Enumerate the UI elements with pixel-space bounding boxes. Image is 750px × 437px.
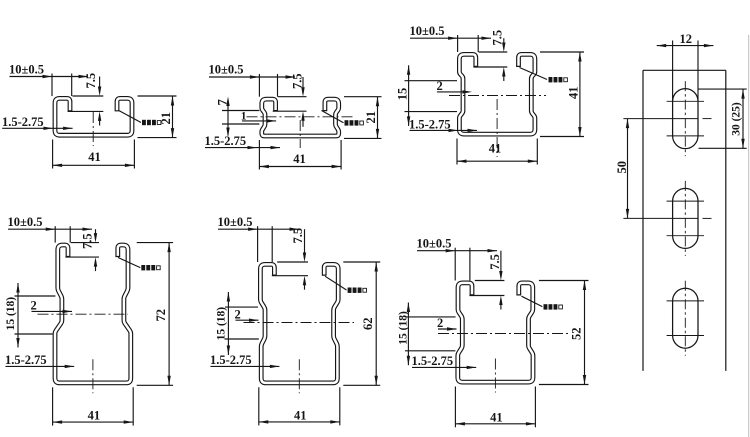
P2 dim 7 line and arrows — [227, 100, 229, 136]
P5 dim 2 leader — [236, 319, 259, 321]
P6 centerline vertical dashed — [494, 359, 496, 393]
P2 dim 10±0.5 extension lines — [258, 74, 260, 97]
P5 centerline horizontal dashed — [244, 322, 355, 324]
P3 dim 41 right extension lines — [540, 51, 584, 53]
P4 centerline vertical dashed — [92, 359, 94, 393]
P3 lip label text — [549, 77, 553, 82]
svg-text:1.5-2.75: 1.5-2.75 — [210, 353, 252, 367]
dim 30 (25) line — [742, 89, 744, 148]
P5 dim 10±0.5 extension lines — [257, 226, 259, 262]
svg-text:2: 2 — [31, 299, 37, 313]
profile P4 channel cross-section — [55, 245, 131, 383]
svg-text:62: 62 — [361, 318, 375, 331]
profile P2 channel 41x21 ribbed cross-section — [262, 99, 339, 136]
svg-text:30 (25): 30 (25) — [731, 102, 743, 136]
slot 3 lower arc centerline — [667, 335, 704, 337]
svg-text:41: 41 — [293, 152, 306, 166]
strip right edge — [725, 70, 727, 371]
dim 30 (25) extension lines — [699, 88, 747, 90]
strip left edge — [642, 70, 644, 371]
P3 dim 10±0.5 line — [410, 37, 491, 39]
svg-text:10±0.5: 10±0.5 — [209, 62, 244, 76]
P4 dim 41 line — [53, 421, 134, 423]
P2 dim 41 extension lines — [258, 140, 260, 170]
P6 dim 15 (18) extension lines — [405, 316, 456, 318]
svg-text:7.5: 7.5 — [81, 233, 95, 249]
P1 dim 7.5 line and arrows — [99, 77, 101, 93]
P3 dim 2 leader — [437, 91, 468, 93]
slot 3 vertical centerline — [684, 281, 686, 356]
svg-text:1.5-2.75: 1.5-2.75 — [409, 117, 451, 131]
P6 height dim extension lines — [539, 280, 589, 282]
P5 height dim extension lines — [343, 261, 380, 263]
svg-text:10±0.5: 10±0.5 — [410, 24, 445, 38]
slot 2 vertical centerline — [684, 181, 686, 256]
P1 dim 7.5 extension lines — [73, 95, 104, 97]
svg-text:41: 41 — [88, 150, 101, 164]
P3 dim 41 bottom extension lines — [456, 139, 458, 165]
P6 lip label text — [544, 304, 548, 309]
P4 height dim line — [168, 243, 170, 386]
dim 50 line — [627, 119, 629, 219]
P6 dim 41 extension lines — [454, 387, 456, 428]
P5 dim 10±0.5 line — [218, 228, 299, 230]
svg-text:12: 12 — [680, 32, 693, 46]
svg-text:2: 2 — [437, 316, 443, 330]
P3 dim 15 line and arrows — [408, 65, 410, 126]
page edge faint line — [748, 35, 750, 437]
svg-text:41: 41 — [88, 409, 101, 423]
slot 3 obround outline — [673, 288, 698, 348]
svg-text:7.5: 7.5 — [488, 254, 502, 270]
svg-text:50: 50 — [615, 161, 629, 174]
P3 dim 41 bottom line — [457, 160, 537, 162]
P2 dim 1 leader — [242, 120, 276, 122]
P6 dim 10±0.5 extension lines — [454, 248, 456, 281]
P6 dim 41 line — [455, 423, 535, 425]
profile P6 channel cross-section — [458, 283, 533, 382]
svg-text:72: 72 — [154, 309, 168, 322]
P5 height dim line — [375, 262, 377, 385]
P3 centerline vertical dashed — [496, 99, 498, 157]
P5 label 1.5-2.75 leader — [211, 365, 280, 367]
svg-text:41: 41 — [489, 142, 502, 156]
P6 dim 7.5 line and arrows — [500, 251, 502, 277]
P4 dim 10±0.5 extension lines — [54, 226, 56, 242]
P2 label 1.5-2.75 leader — [205, 147, 280, 149]
svg-text:2: 2 — [235, 307, 241, 321]
P6 dim 15 (18) line and arrows — [407, 303, 409, 366]
svg-text:15 (18): 15 (18) — [5, 297, 17, 331]
P1 dim 21 extension lines — [138, 95, 177, 97]
svg-text:10±0.5: 10±0.5 — [9, 62, 44, 76]
svg-text:1.5-2.75: 1.5-2.75 — [2, 115, 44, 129]
P1 dim 41 line — [53, 164, 135, 166]
profile P3 channel 41x41 ribbed cross-section — [459, 54, 535, 134]
P2 dim 21 extension lines — [344, 96, 382, 98]
P1 dim 41 extension lines — [52, 140, 54, 169]
P3 label 1.5-2.75 leader — [410, 129, 478, 131]
svg-text:21: 21 — [364, 111, 378, 124]
P4 lip leader line — [118, 258, 140, 268]
P6 dim 2 leader — [438, 328, 457, 330]
P3 dim 15 extension lines — [405, 80, 458, 82]
P6 dim 7.5 extension lines — [475, 280, 505, 282]
profile P1 channel 41x21 cross-section — [55, 98, 132, 135]
P1 lip leader line — [119, 111, 141, 123]
P3 centerline horizontal dashed — [449, 95, 546, 97]
P5 dim 15 (18) extension lines — [225, 306, 258, 308]
P6 height dim line — [584, 281, 586, 385]
P5 dim 7.5 line and arrows — [304, 229, 306, 258]
profile P5 channel cross-section — [260, 264, 338, 383]
P5 dim 7.5 extension lines — [277, 261, 308, 263]
P6 lip leader line — [522, 296, 543, 306]
P4 dim 15 (18) line and arrows — [17, 283, 19, 348]
P1 dim 21 line — [172, 96, 174, 138]
P3 lip leader line — [520, 68, 548, 80]
P2 dim 7 extension lines — [222, 110, 259, 112]
P6 label 1.5-2.75 leader — [412, 366, 476, 368]
P6 centerline horizontal dashed — [438, 333, 570, 335]
P5 dim 41 extension lines — [258, 387, 260, 425]
P2 dim 21 line — [377, 97, 379, 139]
svg-text:7.5: 7.5 — [291, 228, 305, 244]
P4 dim 15 (18) extension lines — [15, 295, 56, 297]
slot 3 upper arc centerline — [667, 300, 704, 302]
P4 dim 7.5 extension lines — [71, 242, 99, 244]
P4 centerline horizontal dashed — [38, 313, 129, 315]
svg-text:15: 15 — [396, 88, 410, 101]
P5 centerline vertical dashed — [298, 359, 300, 393]
dim 12 line and arrows — [657, 45, 714, 47]
svg-text:10±0.5: 10±0.5 — [218, 215, 253, 229]
P4 dim 41 extension lines — [52, 387, 54, 425]
P5 dim 15 (18) line and arrows — [227, 292, 229, 355]
strip side view outline top edge — [643, 69, 726, 71]
P3 dim 7.5 line and arrows — [503, 38, 505, 48]
P1 centerline vertical dashed — [92, 112, 94, 146]
P4 dim 7.5 line and arrows — [95, 229, 97, 239]
P3 dim 10±0.5 extension lines — [457, 35, 459, 52]
svg-text:15 (18): 15 (18) — [216, 307, 228, 341]
svg-text:10±0.5: 10±0.5 — [8, 215, 43, 229]
P5 lip label text — [348, 288, 352, 293]
P2 dim 10±0.5 line — [209, 76, 295, 78]
P2 dim 7.5 extension lines — [278, 96, 307, 98]
svg-text:10±0.5: 10±0.5 — [417, 237, 452, 251]
P3 dim 41 right line — [579, 52, 581, 137]
P1 lip label text — [142, 120, 146, 125]
svg-text:1.5-2.75: 1.5-2.75 — [412, 354, 454, 368]
P2 centerline horizontal dashed — [247, 116, 354, 118]
P4 lip label text — [141, 265, 145, 270]
slot 1 upper arc centerline — [667, 100, 704, 102]
slot 2 obround outline — [673, 188, 698, 248]
P2 dim 41 line — [259, 166, 341, 168]
svg-text:41: 41 — [490, 411, 503, 425]
P5 lip leader line — [325, 276, 347, 290]
slot 1 mid centerline — [623, 118, 698, 120]
slot 1 lower arc centerline — [667, 135, 704, 137]
P3 dim 7.5 extension lines — [479, 51, 508, 53]
svg-text:15 (18): 15 (18) — [398, 311, 410, 345]
slot 2 mid centerline — [623, 217, 698, 219]
svg-text:7.5: 7.5 — [84, 73, 98, 89]
P4 dim 2 leader — [32, 310, 73, 312]
svg-text:1.5-2.75: 1.5-2.75 — [205, 134, 247, 148]
slot 1 vertical centerline — [684, 81, 686, 156]
slot 2 lower arc centerline — [667, 235, 704, 237]
P2 dim 7.5 line and arrows — [302, 77, 304, 93]
dim 12 extension lines — [672, 41, 674, 101]
P2 lip label text — [345, 120, 349, 125]
slot 2 upper arc centerline — [667, 200, 704, 202]
P5 dim 41 line — [259, 421, 340, 423]
svg-text:52: 52 — [570, 328, 584, 341]
P2 centerline vertical dashed — [299, 120, 301, 148]
svg-text:41: 41 — [294, 409, 307, 423]
P1 label 1.5-2.75 leader — [2, 127, 72, 129]
P2 lip leader line — [322, 111, 344, 123]
svg-text:41: 41 — [567, 87, 581, 100]
P1 dim 10±0.5 extension lines — [51, 74, 53, 97]
P6 dim 10±0.5 line — [417, 250, 497, 252]
svg-text:1.5-2.75: 1.5-2.75 — [5, 353, 47, 367]
P4 height dim extension lines — [137, 242, 173, 244]
slot 1 obround outline — [673, 89, 698, 149]
P4 label 1.5-2.75 leader — [6, 365, 75, 367]
svg-text:7.5: 7.5 — [490, 30, 504, 46]
P4 dim 10±0.5 line — [8, 228, 92, 230]
svg-text:7.5: 7.5 — [291, 73, 305, 89]
P1 dim 10±0.5 line — [10, 76, 89, 78]
